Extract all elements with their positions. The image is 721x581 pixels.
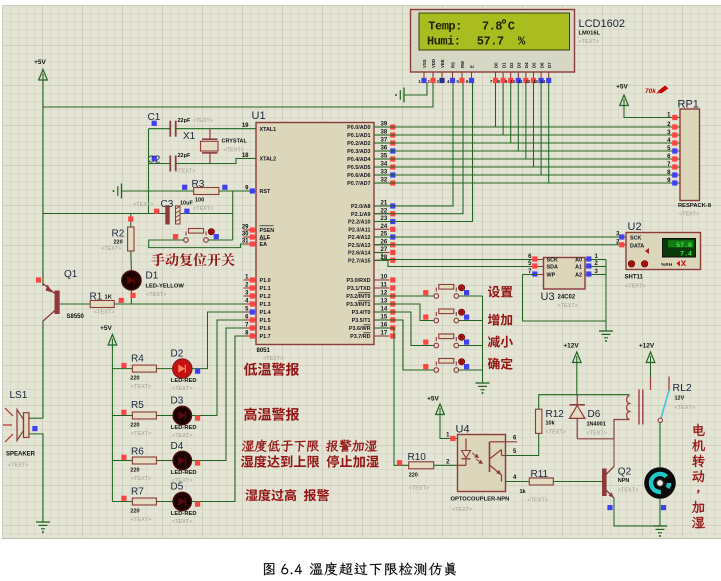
svg-text:+5V: +5V <box>427 396 439 403</box>
svg-text:P3.3/INT1: P3.3/INT1 <box>346 302 370 308</box>
svg-text:<TEXT>: <TEXT> <box>175 169 195 175</box>
svg-text:SPEAKER: SPEAKER <box>6 452 36 458</box>
svg-text:LCD1602: LCD1602 <box>579 18 625 30</box>
LCD display LCD1602 body <box>411 10 575 73</box>
pin 11 P3.1/TXD (U1 right) <box>374 287 390 289</box>
wire R6 to D4 <box>156 460 173 462</box>
svg-text:LED-RED: LED-RED <box>171 425 197 431</box>
svg-text:7.8: 7.8 <box>482 20 502 34</box>
wire LCD D3 to P0.3 <box>517 83 519 151</box>
svg-text:P0.3/AD3: P0.3/AD3 <box>347 149 370 155</box>
wire D6 to Q2 collector node <box>577 438 614 440</box>
pin 16 P3.6/WR (U1 right) <box>374 327 390 329</box>
wire R4 to D2 <box>156 368 173 370</box>
svg-text:<TEXT>: <TEXT> <box>679 212 699 218</box>
pin 5 SDA (U3 left) <box>538 266 544 268</box>
svg-text:30: 30 <box>242 232 249 238</box>
svg-text:7.4: 7.4 <box>680 250 692 257</box>
svg-text:<TEXT>: <TEXT> <box>131 476 151 482</box>
wire R11 to Q2 base <box>553 481 602 483</box>
wire LCD RW <box>374 83 463 214</box>
pin 24 P2.3/A11 (U1 right) <box>374 228 390 230</box>
wire LCD D0 to P0.0 <box>495 83 497 127</box>
wire rail to R4 <box>112 368 132 370</box>
node D1 bottom <box>130 293 135 298</box>
svg-text:P0.5/AD5: P0.5/AD5 <box>347 165 370 171</box>
svg-text:R4: R4 <box>131 354 144 365</box>
ground (keys) <box>476 382 490 384</box>
wire P0.4 bus <box>374 158 680 160</box>
svg-text:U2: U2 <box>628 221 642 233</box>
svg-text:X1: X1 <box>183 131 196 142</box>
svg-text:24: 24 <box>381 224 388 230</box>
svg-text:P2.2/A10: P2.2/A10 <box>348 220 370 226</box>
wire P0.3 bus <box>374 150 680 152</box>
node D2 right <box>195 369 200 374</box>
pin 15 P3.5/T1 (U1 right) <box>374 319 390 321</box>
motor (DC motor) <box>644 467 676 499</box>
svg-text:P2.0/A8: P2.0/A8 <box>351 204 370 210</box>
wire +5V to RP1 pin1 <box>624 106 680 118</box>
svg-text:SCK: SCK <box>630 236 641 242</box>
svg-text:EA: EA <box>260 242 268 248</box>
pin 28 P2.7/A15 (U1 right) <box>374 259 390 261</box>
svg-text:<TEXT>: <TEXT> <box>625 284 645 290</box>
pin 32 P0.7/AD7 (U1 right) <box>374 182 390 184</box>
pin 2 A1 (U3 right) <box>585 266 591 268</box>
svg-text:18: 18 <box>242 153 249 159</box>
svg-text:SHT11: SHT11 <box>625 275 644 281</box>
svg-text:<TEXT>: <TEXT> <box>8 463 28 469</box>
pin 39 P0.0/AD0 (U1 right) <box>374 126 390 128</box>
svg-text:LED-RED: LED-RED <box>171 511 197 517</box>
svg-text:D1: D1 <box>146 271 159 282</box>
svg-text:+5V: +5V <box>34 59 46 66</box>
capacitor C1 <box>152 121 157 126</box>
wire P0.6 bus <box>374 174 680 176</box>
svg-text:24C02: 24C02 <box>558 295 576 301</box>
svg-text:P1.0: P1.0 <box>260 278 271 284</box>
svg-text:U4: U4 <box>456 424 470 436</box>
wire U3 A0-A2 to ground <box>591 259 606 261</box>
relay RL2 coil <box>627 396 630 420</box>
wire P3.3 to key INC <box>374 304 434 321</box>
svg-text:<TEXT>: <TEXT> <box>131 384 151 390</box>
wire D5 to U1 <box>192 336 256 502</box>
svg-text:<TEXT>: <TEXT> <box>579 39 599 45</box>
pin 13 P3.3/INT1 (U1 right) <box>374 303 390 305</box>
svg-text:SCK: SCK <box>547 258 558 264</box>
svg-text:<TEXT>: <TEXT> <box>528 498 548 504</box>
svg-text:+12V: +12V <box>563 343 579 350</box>
svg-text:29: 29 <box>242 225 249 231</box>
pin 3 P1.2 (U1 left) <box>244 295 257 297</box>
power +5V (left rail) <box>39 70 48 81</box>
wire LED +5V rail <box>111 345 113 502</box>
svg-text:%: % <box>518 35 526 49</box>
svg-text:D6: D6 <box>539 62 544 68</box>
label motor-run (Chinese, vertical) <box>692 424 705 528</box>
pin 4 P1.3 (U1 left) <box>244 303 257 305</box>
power +12V (coil) <box>573 352 582 363</box>
svg-text:8051: 8051 <box>257 348 271 354</box>
svg-text:P0.4/AD4: P0.4/AD4 <box>347 157 370 163</box>
svg-text:57.7: 57.7 <box>477 35 504 49</box>
node R2 top <box>128 216 133 221</box>
svg-text:Q1: Q1 <box>64 269 78 280</box>
svg-text:22pF: 22pF <box>178 118 191 124</box>
wire LCD D7 to P0.7 <box>548 83 550 183</box>
pin 29 PSEN (U1 left) <box>244 229 257 231</box>
svg-text:12V: 12V <box>675 396 685 402</box>
svg-text:R6: R6 <box>131 447 144 458</box>
node R6 left <box>121 455 126 460</box>
wire coil bottom <box>614 420 630 439</box>
wire P3.5 to key OK <box>374 320 434 370</box>
svg-text:OPTOCOUPLER-NPN: OPTOCOUPLER-NPN <box>451 497 510 503</box>
svg-text:P2.1/A9: P2.1/A9 <box>351 212 370 218</box>
LED D5 (red) <box>173 492 191 510</box>
wire +12V to rail <box>576 363 578 395</box>
svg-text:P0.2/AD2: P0.2/AD2 <box>347 141 370 147</box>
wire reset button right <box>208 239 232 241</box>
svg-text:<TEXT>: <TEXT> <box>193 118 213 124</box>
svg-text:<TEXT>: <TEXT> <box>587 431 607 437</box>
wire C3 right <box>180 213 233 215</box>
svg-text:220: 220 <box>114 240 123 246</box>
pin 27 P2.6/A14 (U1 right) <box>374 252 390 254</box>
wire rail to R5 <box>112 415 132 417</box>
svg-text:<TEXT>: <TEXT> <box>558 303 578 309</box>
svg-text:Temp:: Temp: <box>428 20 462 34</box>
wire P2.4 to U2 SCK <box>374 236 626 238</box>
wire LCD D1 to P0.1 <box>502 83 504 135</box>
pin 5 P1.4 (U1 left) <box>244 311 257 313</box>
caption figure 6.4 <box>264 563 275 575</box>
wire D2 to U1 <box>192 312 256 369</box>
svg-text:220: 220 <box>130 376 139 382</box>
wire R5 to D3 <box>156 415 173 417</box>
wire D3 to U1 <box>192 320 256 416</box>
svg-text:R5: R5 <box>131 400 144 411</box>
wire +12V to contact <box>650 363 652 378</box>
svg-text:LM016L: LM016L <box>579 31 601 37</box>
svg-text:PSEN: PSEN <box>260 228 275 234</box>
node R3 left <box>182 185 187 190</box>
svg-text:1N4001: 1N4001 <box>587 422 606 428</box>
wire rail to R6 <box>112 460 132 462</box>
wire P2.7 to U3 SDA <box>374 260 538 266</box>
wire P3.2 to key SET <box>374 295 434 297</box>
wire R7 to D5 <box>156 501 173 503</box>
pin 26 P2.5/A13 (U1 right) <box>374 244 390 246</box>
wire R2 to D1 <box>130 251 133 270</box>
svg-text:P1.7: P1.7 <box>260 334 271 340</box>
svg-text:E: E <box>470 65 475 68</box>
svg-text:220: 220 <box>409 473 418 479</box>
svg-text:Humi:: Humi: <box>427 35 461 49</box>
label SET (Chinese) <box>488 286 513 298</box>
svg-text:LED-YELLOW: LED-YELLOW <box>146 284 185 290</box>
pin 12 P3.2/INT0 (U1 right) <box>374 295 390 297</box>
svg-text:NPN: NPN <box>618 478 630 484</box>
node R5 left <box>121 410 126 415</box>
ground (reset, sideways) <box>121 184 123 199</box>
wire R12 top to +12V rail <box>539 395 630 410</box>
power +5V (U4) <box>436 404 445 415</box>
wire U4 pin5 to R12 <box>506 433 539 455</box>
wire rail to R7 <box>112 501 132 503</box>
pin 7 P1.6 (U1 left) <box>244 327 257 329</box>
svg-text:<TEXT>: <TEXT> <box>546 430 566 436</box>
svg-text:C: C <box>508 20 515 34</box>
label INC (Chinese) <box>488 314 512 326</box>
svg-text:RESPACK-8: RESPACK-8 <box>678 203 712 209</box>
svg-text:R7: R7 <box>131 487 144 498</box>
svg-text:ALE: ALE <box>260 235 271 241</box>
wire C2 to XTAL2 <box>176 159 256 164</box>
pin 31 EA (U1 left) <box>244 243 257 245</box>
pin 37 P0.2/AD2 (U1 right) <box>374 142 390 144</box>
svg-text:P2.5/A13: P2.5/A13 <box>348 243 370 249</box>
grid bottom edge <box>2 538 721 540</box>
svg-text:<TEXT>: <TEXT> <box>172 519 192 525</box>
wire R1 to U1 P1.3 <box>114 303 256 305</box>
push-button SET <box>435 288 437 292</box>
label OK (Chinese) <box>488 357 513 369</box>
pin 23 P2.2/A10 (U1 right) <box>374 221 390 223</box>
svg-text:P0.7/AD7: P0.7/AD7 <box>347 181 370 187</box>
wire key INC right <box>459 320 483 322</box>
pin 14 P3.4/T0 (U1 right) <box>374 311 390 313</box>
svg-text:P1.4: P1.4 <box>260 310 271 316</box>
wire Q1 collector down <box>42 321 44 418</box>
wire Q2 collector <box>613 439 615 467</box>
svg-text:CRYSTAL: CRYSTAL <box>222 139 248 145</box>
wire LCD RS <box>374 83 453 206</box>
svg-text:P3.0/RXD: P3.0/RXD <box>347 278 371 284</box>
wire C1 to XTAL1 <box>176 128 256 130</box>
svg-text:P1.2: P1.2 <box>260 294 271 300</box>
pin 2 P1.1 (U1 left) <box>244 287 257 289</box>
svg-text:220: 220 <box>130 423 139 429</box>
node R4 left <box>121 363 126 368</box>
LED D2 (red) <box>173 359 192 378</box>
wire P0.0 bus <box>374 126 680 128</box>
pin 21 P2.0/A8 (U1 right) <box>374 205 390 207</box>
pin 3 A2 (U3 right) <box>585 274 591 276</box>
push-button DEC <box>435 337 437 341</box>
svg-text:D5: D5 <box>171 482 184 493</box>
svg-text:LS1: LS1 <box>10 390 28 401</box>
svg-text:A1: A1 <box>575 265 582 271</box>
svg-text:A0: A0 <box>575 258 582 264</box>
wire LCD D2 to P0.2 <box>510 83 512 143</box>
svg-text:D1: D1 <box>501 62 506 68</box>
svg-text:P0.1/AD1: P0.1/AD1 <box>347 133 370 139</box>
svg-text:+5V: +5V <box>616 84 628 91</box>
svg-text:10uF: 10uF <box>180 201 193 207</box>
wire speaker bottom <box>29 434 43 522</box>
pin 38 P0.1/AD1 (U1 right) <box>374 134 390 136</box>
node D3 right <box>195 416 200 421</box>
wire P3.6 to R10 <box>374 328 409 465</box>
svg-text:D2: D2 <box>509 62 514 68</box>
svg-text:<TEXT>: <TEXT> <box>131 517 151 523</box>
svg-text:220: 220 <box>130 509 139 515</box>
label humidity-high-stop (Chinese) <box>241 455 379 468</box>
svg-text:A2: A2 <box>575 273 582 279</box>
wire contact stub <box>650 377 652 390</box>
wire Q1 base to R1 <box>59 303 90 305</box>
svg-text:R12: R12 <box>546 409 565 420</box>
svg-text:P2.7/A15: P2.7/A15 <box>348 258 370 264</box>
wire LCD VSS to ground <box>404 83 427 95</box>
svg-text:P0.6/AD6: P0.6/AD6 <box>347 173 370 179</box>
node motor bottom <box>661 505 666 510</box>
wire D1 to P1.3 net <box>130 290 132 304</box>
svg-text:<TEXT>: <TEXT> <box>618 488 638 494</box>
svg-text:12: 12 <box>526 79 531 84</box>
pin 36 P0.3/AD3 (U1 right) <box>374 150 390 152</box>
svg-text:VEE: VEE <box>440 59 445 68</box>
svg-text:LED-RED: LED-RED <box>171 378 197 384</box>
svg-text:11: 11 <box>381 283 388 289</box>
node R10 left <box>397 460 402 465</box>
svg-text:U3: U3 <box>541 291 555 303</box>
svg-text:1k: 1k <box>520 489 527 495</box>
wire C1-C2 ground vertical <box>148 129 150 214</box>
pin 35 P0.4/AD4 (U1 right) <box>374 158 390 160</box>
pin 17 P3.7/RD (U1 right) <box>374 335 390 337</box>
svg-text:10: 10 <box>510 79 515 84</box>
ground (speaker) <box>36 521 50 523</box>
svg-text:57.0: 57.0 <box>676 242 692 249</box>
svg-text:<TEXT>: <TEXT> <box>94 310 114 316</box>
svg-text:+12V: +12V <box>639 343 655 350</box>
pin 6 (U4) <box>506 441 518 443</box>
svg-text:RW: RW <box>460 60 465 68</box>
svg-text:P3.7/RD: P3.7/RD <box>350 334 370 340</box>
svg-text:14: 14 <box>541 79 546 84</box>
svg-text:D4: D4 <box>171 441 184 452</box>
label humidity-low (Chinese) <box>242 440 378 452</box>
wire P0.2 bus <box>374 142 680 144</box>
wire R10 to U4 <box>434 464 458 466</box>
svg-text:<TEXT>: <TEXT> <box>101 246 121 252</box>
svg-text:%RH: %RH <box>661 262 673 268</box>
svg-text:100: 100 <box>195 198 204 204</box>
svg-text:<TEXT>: <TEXT> <box>133 202 153 208</box>
svg-text:<TEXT>: <TEXT> <box>675 405 695 411</box>
svg-text:DATA: DATA <box>630 243 644 249</box>
svg-text:RS: RS <box>451 62 456 68</box>
wire +5V to LCD VDD <box>43 83 433 107</box>
wire reset button left <box>149 240 256 248</box>
wire R3 to RST <box>219 190 256 192</box>
wire P3.4 to key DEC <box>374 312 434 346</box>
node R3 right <box>222 185 227 190</box>
wire LCD D5 to P0.5 <box>533 83 535 167</box>
diode D6 (1N4001) <box>576 395 578 405</box>
wire +5V rail vertical <box>42 80 44 286</box>
push-button OK <box>435 362 437 366</box>
svg-text:P3.1/TXD: P3.1/TXD <box>347 286 370 292</box>
svg-text:<TEXT>: <TEXT> <box>193 206 213 212</box>
svg-text:D7: D7 <box>547 62 552 68</box>
svg-text:P0.0/AD0: P0.0/AD0 <box>347 125 370 131</box>
wire key SET right <box>459 295 483 297</box>
node C3 right <box>184 209 189 214</box>
wire LCD E <box>374 83 473 222</box>
svg-text:D4: D4 <box>524 62 529 68</box>
svg-text:P3.6/WR: P3.6/WR <box>349 326 371 332</box>
pin 7 WP (U3 left) <box>538 274 544 276</box>
svg-text:P2.3/A11: P2.3/A11 <box>348 227 370 233</box>
pin 30 ALE (U1 left) <box>244 236 257 238</box>
svg-text:<TEXT>: <TEXT> <box>172 386 192 392</box>
label manual-reset (Chinese) <box>151 253 234 266</box>
svg-text:17: 17 <box>381 331 388 337</box>
wire R3 left <box>122 190 194 192</box>
svg-text:D2: D2 <box>171 349 184 360</box>
svg-text:D3: D3 <box>517 62 522 68</box>
wire U3 WP <box>523 274 538 276</box>
svg-text:RL2: RL2 <box>673 382 692 394</box>
wire P0.7 bus <box>374 182 680 184</box>
LED D4 (red) <box>173 451 191 469</box>
svg-text:VDD: VDD <box>431 59 436 68</box>
svg-text:10k: 10k <box>546 421 556 427</box>
svg-text:<TEXT>: <TEXT> <box>172 433 192 439</box>
svg-text:P2.4/A12: P2.4/A12 <box>348 235 370 241</box>
relay RL2 switch blade <box>668 377 670 391</box>
wire motor bottom <box>659 499 661 526</box>
node D5 right <box>195 502 200 507</box>
node R7 left <box>121 496 126 501</box>
svg-text:C1: C1 <box>148 112 161 123</box>
svg-text:D0: D0 <box>494 62 499 68</box>
svg-text:<TEXT>: <TEXT> <box>409 486 429 492</box>
svg-text:VSS: VSS <box>422 59 427 68</box>
node Q1 emitter rail <box>36 277 41 282</box>
wire D4 to U1 <box>192 328 256 461</box>
svg-text:P1.3: P1.3 <box>260 302 271 308</box>
power +5V (RP1) <box>620 95 629 106</box>
svg-text:P3.2/INT0: P3.2/INT0 <box>346 294 370 300</box>
pin 34 P0.5/AD5 (U1 right) <box>374 166 390 168</box>
svg-text:P1.6: P1.6 <box>260 326 271 332</box>
wire R2 top <box>130 214 132 228</box>
wire P0.1 bus <box>374 134 680 136</box>
label low-temp alarm (Chinese) <box>244 363 299 376</box>
svg-text:<TEXT>: <TEXT> <box>263 356 283 362</box>
pin 22 P2.1/A9 (U1 right) <box>374 213 390 215</box>
pin 10 P3.0/RXD (U1 right) <box>374 279 390 281</box>
wire +5V to U4 pin1 <box>440 415 458 439</box>
capacitor C2 <box>152 156 157 161</box>
svg-text:<TEXT>: <TEXT> <box>146 292 166 298</box>
power +12V (contact) <box>646 352 655 363</box>
label humidity-over alarm (Chinese) <box>245 489 329 501</box>
LED D3 (red) <box>173 406 191 424</box>
svg-text:D5: D5 <box>532 62 537 68</box>
pin 25 P2.4/A12 (U1 right) <box>374 236 390 238</box>
node speaker <box>32 426 37 431</box>
eeprom U3 24C02 body <box>544 258 586 290</box>
svg-text:P2.6/A14: P2.6/A14 <box>348 251 370 257</box>
pin 8 P1.7 (U1 left) <box>244 335 257 337</box>
